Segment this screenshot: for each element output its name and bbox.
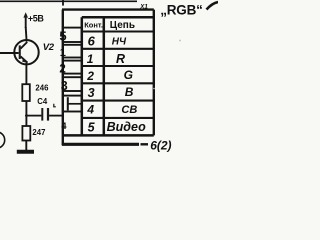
power +5V arrow bbox=[23, 12, 28, 28]
svg-text:C4: C4 bbox=[37, 97, 48, 106]
corner squiggle bbox=[207, 2, 219, 10]
svg-text:2: 2 bbox=[59, 63, 65, 75]
svg-text:„RGB“: „RGB“ bbox=[160, 2, 203, 17]
svg-text:G: G bbox=[124, 68, 133, 82]
table row lines bbox=[82, 32, 154, 118]
svg-text:3: 3 bbox=[88, 86, 95, 100]
stray tick mark bbox=[54, 104, 56, 107]
wire collector to +5V bbox=[25, 27, 28, 42]
svg-text:1: 1 bbox=[60, 47, 66, 59]
node junction bbox=[25, 114, 28, 117]
connector X1 body outline bbox=[62, 10, 154, 145]
connector table frame bbox=[62, 17, 154, 135]
ground bbox=[17, 150, 34, 154]
svg-text:6(2): 6(2) bbox=[150, 138, 171, 152]
wire resistor to ground bbox=[25, 141, 27, 151]
wire base input from left edge bbox=[0, 52, 19, 54]
top edge tick bbox=[62, 0, 64, 6]
wire continuation dash bbox=[141, 143, 149, 145]
wire emitter down bbox=[25, 63, 27, 84]
svg-text:Конт.: Конт. bbox=[84, 20, 103, 29]
svg-text:4: 4 bbox=[86, 103, 94, 117]
svg-text:5: 5 bbox=[59, 28, 66, 43]
svg-text:R: R bbox=[116, 52, 125, 66]
svg-text:+5В: +5В bbox=[28, 13, 44, 23]
svg-text:1: 1 bbox=[87, 52, 94, 66]
capacitor C4 bbox=[41, 108, 49, 121]
svg-text:6: 6 bbox=[88, 34, 96, 49]
svg-text:2: 2 bbox=[86, 69, 94, 83]
top edge rule bbox=[0, 0, 137, 2]
svg-text:5: 5 bbox=[88, 121, 96, 135]
svg-text:247: 247 bbox=[32, 128, 45, 137]
svg-text:4: 4 bbox=[61, 121, 67, 132]
faint specks bbox=[179, 40, 181, 42]
svg-text:3: 3 bbox=[61, 79, 68, 93]
contact cell 5 bbox=[63, 28, 82, 42]
svg-text:СВ: СВ bbox=[121, 104, 137, 116]
contact cell 2 bbox=[63, 61, 82, 74]
transistor V2 bbox=[14, 40, 38, 64]
svg-text:В: В bbox=[125, 85, 134, 99]
contact cell 3 bbox=[63, 77, 82, 91]
resistor 246 bbox=[22, 84, 30, 101]
resistor 247 bbox=[22, 126, 30, 141]
wire node to C4 bbox=[26, 115, 41, 117]
svg-text:V2: V2 bbox=[43, 42, 55, 53]
svg-text:НЧ: НЧ bbox=[112, 37, 127, 48]
wire resistor to node bbox=[25, 101, 27, 126]
svg-text:246: 246 bbox=[35, 84, 49, 93]
svg-text:Видео: Видео bbox=[107, 120, 146, 134]
contact cell pin stub bbox=[63, 96, 82, 112]
connector bottom edge / wire out bbox=[62, 143, 139, 146]
wire C4 to connector bbox=[49, 115, 62, 117]
svg-text:Цепь: Цепь bbox=[110, 20, 135, 31]
edge-clipped circle (adjacent transistor) bbox=[0, 132, 5, 148]
svg-text:X1: X1 bbox=[139, 3, 148, 10]
contact cell 1 bbox=[63, 45, 82, 58]
